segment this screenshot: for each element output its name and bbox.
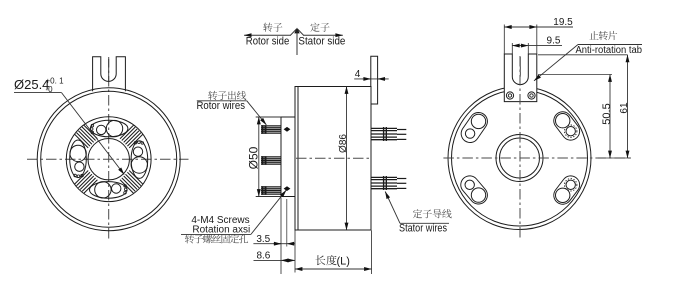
body left face inner line — [297, 87, 299, 231]
wire opening group 3 (left view) — [89, 182, 127, 199]
fork slot center mark — [108, 59, 110, 81]
rotor screw marker (top diamond) — [284, 127, 291, 132]
center line horizontal (left view) — [27, 158, 189, 160]
divider vertical line — [296, 29, 298, 55]
center line (side view) — [296, 157, 371, 159]
slip ring body outline — [295, 87, 371, 231]
rotor wire bundle 1 — [261, 125, 281, 134]
mounting slot bottom-left — [465, 180, 486, 202]
label 转子出线 — [208, 91, 246, 100]
dimension Ø50 — [258, 117, 260, 197]
stator inner ring — [452, 90, 588, 226]
leader 4-M4 screws — [251, 190, 286, 234]
rotor-side arrow line — [244, 34, 291, 36]
label 定子导线 — [413, 209, 452, 218]
hatched wedge sector 2 — [120, 171, 143, 194]
svg-text:Ø50: Ø50 — [247, 146, 261, 169]
dimension Ø86 — [346, 87, 348, 231]
svg-text:4: 4 — [355, 69, 361, 80]
svg-text:(L): (L) — [337, 255, 350, 267]
tab screw right — [528, 92, 535, 99]
leader line for Ø25.4 — [14, 92, 62, 94]
bore outer circle — [496, 135, 543, 182]
svg-text:Rotor side: Rotor side — [246, 35, 289, 47]
rotor bore circle Ø25.4 — [88, 139, 129, 180]
hatched wedge sector 3 — [75, 171, 98, 194]
right view: stator-side face — [443, 17, 642, 241]
leader stator wires — [400, 222, 449, 224]
bore inner circle — [500, 138, 540, 178]
svg-text:Stator wires: Stator wires — [399, 223, 447, 235]
leader rotor wires — [197, 100, 247, 102]
mounting slot top-left — [465, 114, 485, 138]
wire opening group 1 (left view) — [90, 120, 128, 137]
divider apex arrow — [291, 29, 297, 35]
anti-rotation tab plate (right view) — [504, 54, 537, 102]
mounting slot top-right — [556, 114, 577, 138]
svg-text:Ø86: Ø86 — [338, 134, 349, 153]
hatched wedge sector 4 — [75, 125, 98, 148]
dimension 61 — [538, 54, 628, 56]
rotor screw marker (bottom diamond) — [284, 186, 291, 191]
rotor flange circle — [66, 117, 151, 202]
svg-text:50.5: 50.5 — [601, 103, 613, 124]
cap top edge extension — [256, 116, 281, 118]
svg-text:Rotor wires: Rotor wires — [197, 100, 246, 112]
dimension 50.5 — [538, 74, 612, 76]
tab screw left — [506, 92, 513, 99]
leader anti-rotation tab — [578, 44, 642, 46]
stator wire bundle 2 — [371, 176, 406, 190]
label 转子螺丝固定孔 — [185, 234, 248, 243]
extension lines 19.5 — [503, 25, 505, 55]
stator wire bundle 1 — [371, 127, 406, 141]
label 止转片 — [589, 31, 617, 40]
svg-text:61: 61 — [619, 102, 630, 114]
label 转子 (rotor) — [263, 23, 282, 32]
middle view: side elevation — [181, 23, 452, 274]
rotor end cap Ø50 — [281, 117, 295, 197]
svg-text:Stator side: Stator side — [298, 35, 345, 47]
center line vertical (left view) — [108, 57, 110, 241]
stator outer circle — [448, 87, 591, 230]
stator-side arrow line — [303, 34, 343, 36]
wire opening group 2 (left view) — [131, 141, 148, 179]
extension lines bottom left — [280, 198, 282, 275]
center line vertical (right view) — [519, 56, 521, 241]
tab slot center mark — [519, 57, 521, 77]
outer housing circle — [37, 88, 180, 231]
rotor wire bundle 2 — [261, 156, 281, 165]
label 长度 — [315, 255, 336, 265]
dimension 9.5 — [511, 43, 513, 54]
hatched wedge sector 1 — [120, 125, 143, 148]
mounting slot bottom-right — [556, 179, 577, 203]
center line horizontal (right view) — [443, 157, 631, 159]
housing inner ring — [41, 91, 177, 227]
rotor wire bundle 3 — [261, 186, 281, 195]
left view: rotor-side face of slip ring — [14, 57, 189, 241]
label 定子 (stator) — [310, 23, 329, 32]
wire opening group 4 (left view) — [70, 140, 87, 178]
anti-rotation fork tab (left view) — [93, 57, 126, 91]
svg-text:19.5: 19.5 — [553, 17, 573, 28]
anti-rotation tab (side view strip) — [371, 56, 378, 104]
cap bottom edge extension — [256, 196, 281, 198]
svg-text:9.5: 9.5 — [547, 36, 561, 47]
svg-text:Ø25.4: Ø25.4 — [14, 77, 49, 92]
